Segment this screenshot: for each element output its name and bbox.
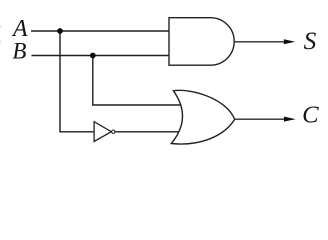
wire: OR output to C — [235, 118, 288, 120]
wire: input A horizontal — [31, 30, 170, 32]
wire: AND output to S — [234, 41, 288, 43]
junction dot on B wire — [90, 53, 96, 59]
svg-text:B: B — [12, 39, 26, 64]
OR gate U2 — [171, 90, 234, 144]
scan artifact marks on left edge — [0, 25, 2, 44]
svg-text:S: S — [304, 28, 317, 55]
junction dot on A wire — [57, 28, 63, 34]
NOT gate inverter triangle — [94, 122, 111, 142]
arrowhead to S — [284, 39, 295, 44]
wire: inverter output to OR — [115, 131, 183, 133]
wire: input B horizontal — [32, 55, 171, 57]
NOT gate bubble — [112, 130, 115, 133]
wire: B branch vertical down to OR input — [93, 56, 183, 106]
AND gate U1 — [169, 18, 234, 65]
wire: A branch vertical down to inverter — [60, 31, 96, 132]
arrowhead to C — [284, 117, 296, 122]
svg-text:C: C — [302, 102, 319, 129]
